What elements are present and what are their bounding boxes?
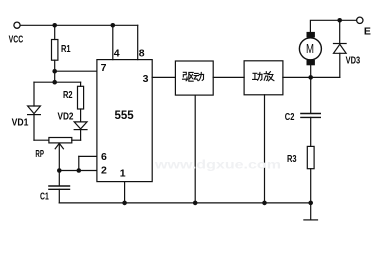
glyph 驱 (183, 72, 194, 81)
svg-text:C1: C1 (40, 190, 49, 202)
svg-text:VD2: VD2 (58, 110, 74, 122)
svg-text:VCC: VCC (9, 33, 24, 45)
wire VD1 bottom lead (33, 115, 35, 141)
RP wiper arrow (55, 143, 63, 148)
resistor R1 (52, 40, 58, 61)
svg-text:www.dgxue.com: www.dgxue.com (154, 158, 281, 172)
wire driver to amp (213, 76, 244, 78)
pin 8 wire (137, 25, 139, 59)
wire VD1 top lead (33, 82, 35, 106)
block 功放 power-amp box (244, 61, 283, 95)
svg-text:M: M (306, 42, 314, 56)
node junction pin7 (52, 69, 57, 74)
svg-text:C2: C2 (285, 111, 295, 123)
svg-text:R3: R3 (287, 153, 297, 165)
wire RP left lead (34, 139, 49, 141)
wire R2-VD2 lead (80, 109, 82, 122)
op-amp U1 555 timer box (97, 60, 152, 182)
motor M body (299, 38, 321, 60)
wire VD3 bottom lead (339, 53, 341, 77)
potentiometer RP (49, 138, 72, 143)
diode VD3 (334, 44, 347, 54)
capacitor C2 (301, 114, 320, 118)
wire amp output (283, 76, 340, 78)
wire to pin 2 (59, 170, 97, 172)
wire RP right lead (72, 139, 81, 141)
pin 1 wire (124, 182, 126, 203)
node junction pin4 (111, 23, 116, 28)
svg-text:R1: R1 (61, 43, 71, 55)
svg-text:VD3: VD3 (346, 55, 361, 67)
svg-text:6: 6 (101, 151, 107, 163)
wire VD2 bottom lead (80, 130, 82, 141)
wire VD3 top lead (339, 20, 341, 43)
node junction R1-top (52, 23, 57, 28)
wire R3 bottom lead (310, 169, 312, 203)
block 驱动 driver box (175, 61, 213, 95)
node junction motor bottom (308, 75, 313, 80)
wire VCC top rail (20, 24, 137, 26)
node junction branch (52, 80, 57, 85)
wire C2-R3 lead (310, 117, 312, 146)
pin 4 wire (112, 25, 114, 59)
wire motor bottom lead (310, 65, 312, 77)
wire R1 bottom lead (54, 60, 56, 82)
motor M brush top (307, 32, 315, 38)
svg-text:E: E (364, 25, 371, 37)
svg-text:RP: RP (35, 148, 44, 160)
glyph 功 (253, 72, 263, 80)
svg-text:2: 2 (101, 165, 107, 177)
node junction pin6 branch (77, 168, 82, 173)
wire C1 top lead (58, 171, 60, 186)
resistor R3 (307, 146, 314, 168)
wire branch horizontal (34, 81, 81, 83)
svg-text:R2: R2 (63, 89, 73, 101)
glyph 放 (264, 72, 274, 81)
svg-text:1: 1 (120, 168, 126, 180)
svg-text:555: 555 (115, 108, 135, 122)
node junction pin1 rail (122, 201, 127, 206)
diode VD1 (28, 106, 41, 115)
node junction ground rail (308, 201, 313, 206)
wire to pin 6 (79, 155, 97, 157)
svg-text:8: 8 (139, 48, 145, 60)
wire wiper vertical (58, 144, 60, 170)
node junction drive rail (193, 201, 198, 206)
node junction VD3 top (337, 18, 342, 23)
wire C2 top lead (310, 77, 312, 113)
wire driver bottom (194, 95, 196, 203)
node junction amp rail (262, 201, 267, 206)
wire bottom rail (59, 202, 310, 204)
svg-text:4: 4 (114, 48, 120, 60)
wire C1 bottom lead (58, 189, 60, 203)
wire motor top (310, 20, 356, 32)
motor M brush bottom (307, 60, 315, 66)
glyph 动 (194, 72, 204, 80)
svg-text:3: 3 (143, 73, 149, 85)
terminal E (357, 17, 363, 23)
capacitor C1 (49, 186, 70, 189)
terminal VCC (14, 22, 20, 28)
wire pin6 vertical (78, 156, 80, 170)
svg-text:VD1: VD1 (12, 117, 29, 129)
wire amp bottom (264, 95, 266, 203)
pin 3 wire (152, 76, 175, 78)
node junction wiper (57, 168, 62, 173)
wire R1 top lead (54, 25, 56, 39)
diode VD2 (74, 122, 87, 130)
wire R2 top lead (80, 82, 82, 86)
svg-text:7: 7 (101, 62, 107, 74)
wire to pin 7 (55, 70, 97, 72)
ground (304, 203, 318, 220)
resistor R2 (78, 86, 84, 109)
